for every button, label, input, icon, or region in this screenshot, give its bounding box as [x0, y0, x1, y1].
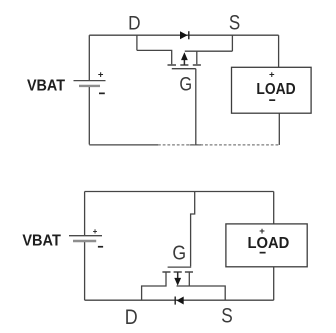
wire source terminal Q2 — [188, 273, 190, 287]
Q1 source contact bar — [193, 64, 201, 66]
wire source terminal Q1 — [196, 51, 198, 64]
diode D2 body diode (cathode left, pointing left) — [175, 297, 184, 305]
wire bottom rail circuit 1 (faded part) — [158, 144, 279, 146]
svg-text:G: G — [172, 242, 186, 264]
Q2 body contact bar — [174, 271, 182, 273]
Q2 drain contact bar — [162, 271, 170, 273]
wire source lead Q1 — [185, 50, 233, 52]
Q1 body contact bar — [180, 64, 188, 66]
svg-text:S: S — [221, 305, 232, 328]
LOAD2 minus mark — [260, 252, 266, 254]
wire left rail lower circuit 2 — [84, 242, 86, 301]
svg-text:D: D — [128, 11, 140, 33]
wire top rail circuit 1 (D to S node) — [89, 34, 278, 36]
wire bottom rail circuit 1 (solid part) — [89, 144, 158, 146]
wire drain lead Q1 — [137, 50, 172, 64]
battery VBAT circuit 1 — [74, 81, 106, 86]
wire left rail lower circuit 1 — [88, 87, 90, 145]
diode D1 body diode (anode D, cathode S) — [180, 31, 189, 39]
svg-text:+: + — [98, 70, 104, 81]
svg-text:+: + — [93, 227, 98, 236]
svg-text:S: S — [229, 12, 240, 35]
wire LOAD1 bottom to bottom rail — [278, 113, 280, 145]
wire source tap circuit 1 (node S) — [231, 35, 233, 51]
wire gate feed circuit 2 (top rail to G, with jog) — [191, 192, 195, 267]
wire LOAD2 bottom to bottom rail — [273, 267, 275, 300]
Q2 gate line — [168, 266, 192, 268]
wire drain lead Q2 — [142, 273, 166, 301]
wire top rail circuit 2 — [85, 191, 274, 193]
battery 1 minus mark — [99, 93, 105, 95]
wire right rail circuit 1 (S to LOAD) — [278, 35, 280, 67]
svg-text:LOAD: LOAD — [256, 81, 295, 98]
wire bottom rail circuit 1 (junction at gate feed) — [190, 144, 202, 146]
load LOAD2 box — [226, 224, 307, 267]
svg-text:LOAD: LOAD — [247, 235, 289, 252]
Q2 body arrow (pointing down to source) — [174, 272, 181, 286]
Q1 body arrow (pointing up to source) — [181, 52, 188, 65]
svg-text:D: D — [125, 305, 138, 329]
wire source lead Q2 — [177, 286, 226, 300]
wire drain tap circuit 1 (node D) — [136, 35, 138, 50]
LOAD1 minus mark — [269, 99, 275, 101]
battery 2 minus mark — [98, 246, 103, 248]
svg-text:G: G — [179, 73, 192, 95]
load LOAD1 box — [232, 67, 312, 113]
svg-text:VBAT: VBAT — [27, 77, 66, 95]
Q1 gate line — [172, 68, 196, 70]
wire gate feed circuit 1 (G to bottom rail) — [195, 69, 197, 145]
battery VBAT circuit 2 — [69, 236, 102, 241]
Q1 drain contact bar — [168, 64, 177, 66]
wire left rail upper circuit 1 — [88, 35, 90, 80]
wire bottom rail circuit 2 (D to S node) — [85, 299, 274, 301]
svg-text:VBAT: VBAT — [22, 232, 61, 250]
transistor Q1 (N-MOSFET, top circuit) — [168, 65, 201, 69]
svg-text:+: + — [269, 70, 275, 81]
transistor Q2 (N-MOSFET, bottom circuit, mirrored) — [162, 267, 193, 272]
wire right rail circuit 2 (to LOAD2) — [273, 192, 275, 224]
Q2 source contact bar — [185, 271, 193, 273]
wire left rail upper circuit 2 — [84, 192, 86, 236]
